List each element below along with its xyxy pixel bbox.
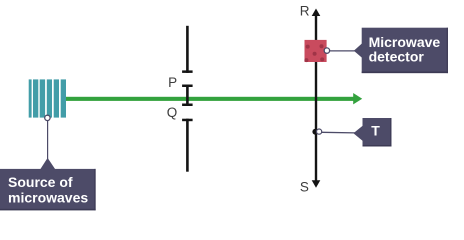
svg-text:T: T (371, 122, 380, 138)
svg-text:detector: detector (369, 48, 425, 64)
svg-text:Microwave: Microwave (369, 34, 441, 50)
svg-text:R: R (300, 4, 310, 19)
svg-text:P: P (168, 75, 177, 90)
wire from detector circle to label pointer (330, 50, 356, 52)
svg-text:Q: Q (167, 105, 178, 120)
microwave detector (red dotted square) (304, 40, 326, 62)
svg-text:Source of: Source of (8, 174, 73, 190)
barrier top segment (182, 26, 193, 73)
label callout: T (353, 118, 391, 147)
green microwave beam arrow (66, 93, 362, 104)
detector marker circle (324, 48, 329, 53)
node T marker: dot on axis plus probe circle (312, 129, 321, 135)
source of microwaves (teal comb emitter) (29, 79, 66, 117)
wire from source circle to label pointer (47, 121, 49, 159)
wire from T circle to label pointer (322, 131, 355, 134)
barrier middle segment between slits (182, 85, 193, 107)
label callout: Source of microwaves (0, 158, 96, 210)
barrier bottom segment (182, 119, 193, 172)
source marker circle (45, 115, 50, 120)
label callout: Microwave detector (354, 28, 448, 73)
svg-text:S: S (300, 180, 309, 195)
svg-text:microwaves: microwaves (8, 189, 88, 205)
screen axis line R-S with arrowheads (312, 9, 321, 188)
